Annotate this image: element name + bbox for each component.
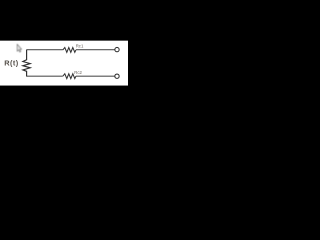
svg-text:R(t): R(t) [4, 59, 19, 68]
wire: top rail from Rc1 to terminal [76, 49, 115, 51]
svg-text:Rc1: Rc1 [76, 43, 84, 48]
wire: bottom rail from Rc2 to terminal [76, 75, 115, 77]
background letterbox [0, 0, 128, 128]
schematic canvas [0, 41, 128, 86]
svg-text:Rc2: Rc2 [74, 70, 82, 75]
terminal (open circle, bottom right) [115, 74, 119, 78]
resistor R(t) (vertical, with leads) [23, 50, 30, 77]
wire: top rail from R(t) to Rc1 [27, 49, 63, 51]
terminal (open circle, top right) [115, 47, 119, 51]
wire: bottom rail from R(t) to Rc2 [27, 75, 63, 77]
resistor Rc1 (horizontal, top) [63, 48, 76, 53]
resistor Rc2 (horizontal, bottom) [63, 74, 76, 79]
mouse cursor [17, 44, 21, 52]
